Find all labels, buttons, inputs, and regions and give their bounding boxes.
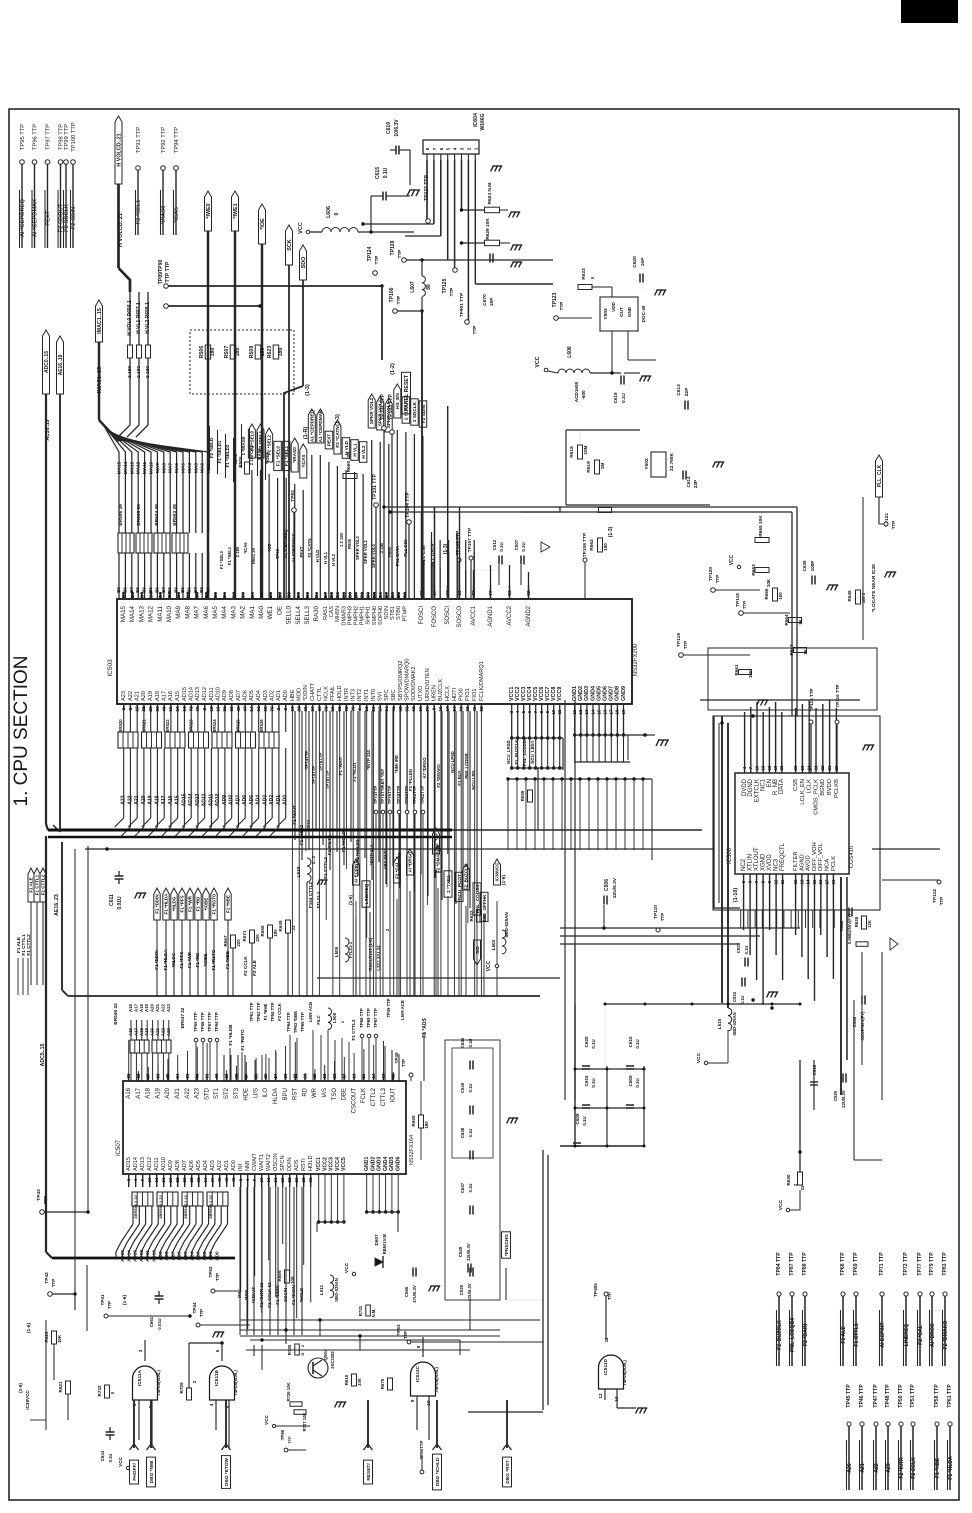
svg-text:16: 16 [290, 706, 295, 712]
svg-text:AD5: AD5 [249, 690, 255, 701]
svg-text:TP83 TTP: TP83 TTP [942, 1252, 948, 1276]
svg-text:33: 33 [229, 706, 234, 712]
svg-text:2SC3382: 2SC3382 [330, 1351, 335, 1369]
svg-text:XTLOUT: XTLOUT [754, 847, 760, 871]
svg-text:SELL0: SELL0 [286, 605, 293, 624]
svg-text:10K: 10K [748, 669, 753, 678]
svg-text:38: 38 [465, 706, 470, 712]
svg-text:B9: B9 [296, 592, 301, 598]
svg-text:C636: C636 [460, 1037, 465, 1048]
svg-text:VCC4: VCC4 [335, 1157, 341, 1171]
svg-text:19: 19 [322, 1073, 327, 1079]
svg-text:F1 *WR: F1 *WR [188, 895, 193, 912]
svg-text:NMI: NMI [245, 1160, 251, 1171]
svg-text:0.1U: 0.1U [582, 1116, 587, 1125]
svg-text:17: 17 [342, 1073, 347, 1079]
svg-text:DATA: DATA [779, 779, 785, 794]
svg-text:HDE: HDE [244, 1088, 250, 1101]
svg-text:TTP: TTP [742, 601, 747, 609]
svg-text:A23: A23 [195, 1087, 201, 1098]
svg-text:PMPH3: PMPH3 [347, 606, 353, 625]
svg-text:R508: R508 [249, 346, 255, 359]
svg-text:19: 19 [621, 709, 626, 714]
svg-text:H VOL0 R656.1: H VOL0 R656.1 [127, 300, 133, 336]
svg-text:IMAC1..15: IMAC1..15 [97, 308, 103, 334]
svg-text:51: 51 [324, 706, 329, 712]
svg-text:TTP TTP: TTP TTP [165, 261, 171, 282]
svg-text:14: 14 [590, 709, 595, 714]
svg-text:(1-3): (1-3) [608, 526, 614, 537]
svg-text:39: 39 [126, 1073, 131, 1079]
svg-text:AE16..19: AE16..19 [58, 354, 64, 375]
svg-text:F2 *GAIN: F2 *GAIN [803, 1324, 809, 1346]
svg-text:33: 33 [291, 925, 296, 930]
svg-text:OE: OE [276, 606, 283, 615]
svg-text:FOSCI: FOSCI [419, 606, 425, 625]
svg-text:MA10: MA10 [166, 605, 173, 622]
svg-text:BR503 39: BR503 39 [172, 504, 178, 526]
svg-text:MA11: MA11 [157, 605, 164, 621]
svg-text:22: 22 [820, 765, 825, 770]
svg-text:AVCC1: AVCC1 [471, 605, 477, 625]
svg-text:F1 *HLDA: F1 *HLDA [163, 949, 168, 971]
svg-text:0.1U: 0.1U [468, 1184, 473, 1193]
svg-text:TTP: TTP [107, 1301, 112, 1309]
svg-text:CMOS_PCLK: CMOS_PCLK [813, 779, 819, 815]
svg-text:15: 15 [596, 709, 601, 714]
svg-text:R663: R663 [751, 564, 757, 576]
svg-text:IC38VCC: IC38VCC [25, 1390, 30, 1410]
svg-text:F1 *WAIT: F1 *WAIT [338, 756, 343, 775]
svg-text:C661: C661 [149, 1316, 154, 1327]
svg-text:SPKR VOL2: SPKR VOL2 [369, 397, 374, 424]
svg-text:URXD/UTEN: URXD/UTEN [425, 668, 431, 701]
svg-text:-600: -600 [581, 390, 586, 400]
svg-text:TP110: TP110 [653, 905, 659, 919]
svg-text:F1 *HLDA: F1 *HLDA [164, 893, 169, 915]
svg-text:B7: B7 [161, 587, 166, 593]
svg-text:F1 *SEL0: F1 *SEL0 [275, 445, 280, 466]
svg-text:TP78TTP: TP78TTP [396, 786, 401, 805]
svg-text:9: 9 [283, 707, 288, 710]
svg-text:PCLKB: PCLKB [834, 779, 840, 798]
svg-text:MA6: MA6 [174, 463, 179, 473]
svg-text:A18: A18 [146, 1087, 152, 1098]
svg-text:B8: B8 [149, 592, 154, 598]
svg-text:DGND: DGND [748, 778, 754, 796]
svg-text:F1 *BHE: F1 *BHE [263, 1004, 268, 1021]
svg-text:CTTL2: CTTL2 [371, 1087, 377, 1106]
svg-text:180: 180 [235, 348, 241, 357]
svg-text:B8: B8 [360, 592, 365, 598]
svg-text:A21: A21 [135, 691, 141, 701]
svg-text:GND5: GND5 [389, 1156, 395, 1171]
svg-text:SCK: SCK [287, 239, 293, 250]
svg-text:25: 25 [182, 1177, 187, 1183]
svg-text:A22: A22 [874, 1463, 880, 1473]
svg-text:5: 5 [202, 707, 207, 710]
svg-text:NS32FX200: NS32FX200 [633, 643, 639, 676]
svg-text:DOC-49: DOC-49 [641, 305, 646, 322]
svg-text:F1 *SEL1: F1 *SEL1 [227, 546, 232, 565]
svg-text:37: 37 [210, 1177, 215, 1183]
svg-text:TTP: TTP [939, 897, 944, 905]
svg-text:18: 18 [831, 879, 836, 884]
svg-text:A16: A16 [126, 1087, 132, 1098]
svg-text:R623: R623 [267, 346, 273, 359]
svg-text:22: 22 [293, 1073, 298, 1079]
svg-text:TP61 TTP: TP61 TTP [249, 1002, 254, 1021]
svg-text:10: 10 [774, 879, 779, 884]
svg-text:1: 1 [473, 147, 478, 150]
svg-text:B6: B6 [222, 592, 227, 598]
svg-text:14: 14 [371, 1073, 376, 1079]
svg-text:0.1U: 0.1U [591, 1039, 596, 1048]
svg-text:F1 *RETO: F1 *RETO [240, 1029, 245, 1051]
svg-text:B6: B6 [347, 592, 352, 598]
svg-text:23: 23 [283, 1073, 288, 1079]
svg-text:8: 8 [416, 1345, 421, 1348]
svg-text:MA15: MA15 [117, 461, 122, 474]
svg-text:B7: B7 [193, 587, 198, 593]
svg-text:INT0: INT0 [371, 689, 377, 701]
svg-text:B5: B5 [305, 592, 310, 598]
svg-text:IC511A: IC511A [137, 1369, 143, 1386]
svg-text:R629 10K: R629 10K [485, 218, 491, 240]
svg-text:BR525: BR525 [236, 719, 241, 733]
svg-text:PNL DATA: PNL DATA [395, 546, 400, 566]
svg-text:A22: A22 [185, 1087, 191, 1098]
svg-text:TP47 TTP: TP47 TTP [873, 1384, 879, 1408]
svg-text:L509: L509 [334, 946, 339, 957]
svg-text:R732: R732 [97, 1385, 102, 1396]
svg-text:TP94 TTP: TP94 TTP [174, 127, 180, 153]
svg-text:1 0: 1 0 [259, 548, 264, 554]
svg-text:C927: C927 [736, 942, 741, 953]
svg-text:12: 12 [793, 879, 798, 884]
svg-text:4: 4 [453, 147, 458, 150]
svg-text:TP127 TTP: TP127 TTP [424, 175, 430, 201]
svg-text:TP97 TTP: TP97 TTP [46, 124, 52, 150]
svg-text:22P: 22P [693, 480, 698, 488]
svg-text:16: 16 [161, 1177, 166, 1183]
svg-text:MA14: MA14 [129, 605, 136, 622]
svg-text:EXTCLK: EXTCLK [754, 779, 760, 802]
svg-text:180: 180 [424, 1121, 429, 1129]
svg-text:B8: B8 [287, 592, 292, 598]
svg-text:TP44: TP44 [192, 1302, 197, 1313]
svg-text:C545: C545 [460, 1082, 465, 1093]
svg-text:TP76TTP: TP76TTP [318, 753, 323, 772]
svg-text:RSTI: RSTI [301, 1158, 307, 1171]
svg-text:F1 *HLDB: F1 *HLDB [228, 1024, 233, 1046]
svg-text:H VL1: H VL1 [352, 443, 357, 457]
svg-text:55: 55 [405, 706, 410, 712]
svg-text:AD12: AD12 [147, 1157, 153, 1171]
svg-text:HS_EN: HS_EN [395, 393, 400, 409]
svg-text:F2 ALE: F2 ALE [252, 960, 257, 976]
svg-text:32.768K: 32.768K [669, 452, 675, 471]
svg-text:AD15: AD15 [126, 1157, 132, 1171]
svg-text:DBG *NMI: DBG *NMI [149, 1460, 155, 1483]
svg-text:TP123: TP123 [552, 292, 558, 307]
svg-text:B8: B8 [195, 592, 200, 598]
svg-text:CSCOUT: CSCOUT [351, 1088, 357, 1114]
svg-text:DBG *ETOW: DBG *ETOW [224, 1457, 230, 1486]
svg-text:F1 CTTL2: F1 CTTL2 [26, 934, 31, 956]
svg-text:STB0: STB0 [396, 606, 402, 620]
svg-text:TTP: TTP [660, 913, 665, 921]
svg-text:28: 28 [189, 1177, 194, 1183]
svg-text:MA1: MA1 [206, 463, 211, 473]
svg-text:12: 12 [391, 1073, 396, 1079]
svg-text:45: 45 [472, 706, 477, 712]
svg-text:38: 38 [136, 1073, 141, 1079]
svg-text:INT2: INT2 [357, 689, 363, 701]
svg-text:52: 52 [479, 706, 484, 712]
svg-text:C934: C934 [732, 991, 737, 1002]
svg-text:IC511B: IC511B [214, 1369, 220, 1386]
svg-text:(1-10): (1-10) [733, 888, 739, 903]
svg-text:TP74TTP: TP74TTP [373, 786, 378, 805]
svg-text:B6: B6 [314, 592, 319, 598]
svg-text:F1 ALE: F1 ALE [841, 1326, 847, 1344]
svg-text:C616: C616 [584, 1075, 589, 1086]
svg-text:TP46 TTP: TP46 TTP [859, 1384, 865, 1408]
svg-text:26: 26 [793, 765, 798, 770]
svg-text:TP50 TTP: TP50 TTP [898, 1384, 904, 1408]
svg-text:F1 *HLDA: F1 *HLDA [948, 1456, 954, 1480]
svg-text:27: 27 [378, 706, 383, 712]
svg-text:R669: R669 [277, 1270, 282, 1281]
svg-text:B5: B5 [148, 587, 153, 593]
svg-text:C529: C529 [458, 1246, 463, 1257]
svg-text:20: 20 [834, 765, 839, 770]
svg-text:88: 88 [426, 284, 432, 290]
svg-text:CHATT: CHATT [310, 682, 316, 701]
svg-text:TTP: TTP [287, 1436, 292, 1444]
svg-text:TP49: TP49 [394, 1052, 399, 1063]
svg-text:TP80TTP: TP80TTP [404, 786, 409, 805]
svg-text:MA7: MA7 [194, 605, 201, 618]
svg-text:AD0: AD0 [283, 690, 289, 701]
svg-text:34: 34 [203, 1177, 208, 1183]
svg-text:TP51 TTP: TP51 TTP [910, 1384, 916, 1408]
svg-text:2 *TXD1: 2 *TXD1 [446, 875, 451, 893]
svg-text:HOLD: HOLD [337, 685, 343, 701]
svg-text:B7: B7 [139, 592, 144, 598]
svg-text:FOSCO: FOSCO [432, 606, 438, 628]
svg-text:BR523: BR523 [189, 719, 194, 733]
svg-text:C637: C637 [460, 1182, 465, 1193]
svg-text:47U/6.3V: 47U/6.3V [412, 1285, 417, 1303]
svg-text:Q504: Q504 [323, 1349, 328, 1360]
svg-text:23: 23 [297, 706, 302, 712]
svg-text:TP92 TTP: TP92 TTP [161, 127, 167, 153]
svg-text:MA5: MA5 [212, 605, 219, 618]
svg-text:PEXT: PEXT [327, 434, 332, 446]
svg-text:34: 34 [175, 1073, 180, 1079]
svg-text:36: 36 [155, 706, 160, 712]
svg-text:R670: R670 [380, 1378, 385, 1389]
svg-text:TP119: TP119 [676, 633, 682, 647]
svg-text:R505: R505 [238, 456, 243, 467]
svg-text:R619: R619 [586, 461, 592, 473]
svg-text:TTP: TTP [559, 302, 564, 311]
svg-text:A20: A20 [150, 1027, 155, 1035]
svg-text:INTR: INTR [344, 688, 350, 701]
svg-text:R649: R649 [278, 920, 283, 931]
svg-text:SDO: SDO [301, 257, 307, 269]
svg-text:TP76TTP: TP76TTP [387, 786, 392, 805]
svg-text:R_NB: R_NB [773, 779, 779, 795]
svg-text:TTP: TTP [199, 1309, 204, 1317]
svg-text:20: 20 [371, 706, 376, 712]
svg-text:AD4: AD4 [256, 690, 262, 701]
svg-text:B6: B6 [130, 592, 135, 598]
svg-text:37: 37 [146, 1073, 151, 1079]
svg-text:ST3: ST3 [234, 1087, 240, 1099]
svg-text:VCC5: VCC5 [341, 1157, 347, 1171]
svg-text:A18: A18 [139, 1003, 144, 1011]
svg-text:TP42: TP42 [44, 1272, 50, 1284]
svg-text:DIFF_VOH: DIFF_VOH [812, 842, 818, 871]
svg-text:72: 72 [344, 706, 349, 712]
svg-text:31: 31 [204, 1073, 209, 1079]
svg-text:MA4: MA4 [187, 463, 192, 473]
svg-text:68: 68 [263, 706, 268, 712]
svg-text:SODI/DMAK2: SODI/DMAK2 [411, 666, 417, 701]
svg-text:AD14: AD14 [133, 1157, 139, 1171]
svg-text:AD0: AD0 [231, 1160, 237, 1171]
svg-text:MA15: MA15 [120, 605, 127, 622]
svg-text:BR522: BR522 [165, 719, 170, 733]
svg-text:H VL2: H VL2 [331, 553, 336, 566]
svg-text:F1 *RD: F1 *RD [195, 952, 200, 968]
svg-text:IC511C: IC511C [415, 1365, 421, 1382]
svg-text:TTP: TTP [397, 250, 402, 259]
svg-text:TP48 TTP: TP48 TTP [885, 1384, 891, 1408]
svg-text:12: 12 [209, 706, 214, 712]
svg-text:VDD: VDD [611, 301, 616, 311]
svg-text:180: 180 [603, 543, 608, 551]
svg-text:F1 *ADS: F1 *ADS [422, 1017, 428, 1037]
svg-text:(1-6): (1-6) [26, 1323, 32, 1334]
svg-text:TP99 TTP: TP99 TTP [64, 124, 70, 150]
svg-text:A20: A20 [847, 1463, 853, 1473]
svg-text:DBG *RST: DBG *RST [505, 1460, 511, 1484]
svg-text:33: 33 [800, 1185, 805, 1190]
svg-text:PTMP: PTMP [402, 606, 408, 622]
svg-text:TP120: TP120 [708, 567, 714, 581]
svg-text:29: 29 [148, 706, 153, 712]
svg-text:A21: A21 [175, 1087, 181, 1098]
svg-text:F1 *DDIN: F1 *DDIN [155, 894, 160, 913]
svg-text:PEXT: PEXT [46, 210, 52, 226]
svg-text:0.1U: 0.1U [635, 1039, 640, 1048]
svg-text:W166G: W166G [480, 113, 486, 130]
svg-text:AGND: AGND [799, 854, 805, 871]
svg-text:B7: B7 [231, 592, 236, 598]
svg-text:TP112: TP112 [932, 889, 938, 903]
svg-text:ADC0..15: ADC0..15 [44, 351, 50, 373]
svg-text:PNL_LCDDB4: PNL_LCDDB4 [522, 737, 527, 766]
svg-text:OSCIN: OSCIN [283, 1288, 288, 1302]
svg-text:LCLK_EN: LCLK_EN [800, 779, 806, 805]
svg-text:10: 10 [259, 1177, 264, 1183]
svg-text:F1 CTTL1: F1 CTTL1 [35, 874, 40, 895]
svg-text:VCC2: VCC2 [322, 1157, 328, 1171]
svg-text:10/6.3V: 10/6.3V [394, 119, 400, 137]
svg-text:F2 *INTR: F2 *INTR [899, 1457, 905, 1479]
svg-text:AI ECPINT: AI ECPINT [880, 1322, 886, 1348]
svg-text:A17: A17 [133, 1003, 138, 1011]
svg-text:TTP: TTP [472, 326, 477, 335]
svg-text:69: 69 [418, 706, 423, 712]
svg-text:48: 48 [398, 706, 403, 712]
svg-text:TTP: TTP [396, 296, 401, 305]
svg-text:12K: 12K [867, 920, 872, 928]
svg-text:25: 25 [294, 1177, 299, 1183]
svg-text:A7 *DRGO: A7 *DRGO [422, 757, 427, 779]
svg-text:F1 *HBE: F1 *HBE [226, 895, 231, 913]
svg-text:F2 SDIN: F2 SDIN [71, 207, 77, 229]
svg-text:B5: B5 [259, 592, 264, 598]
svg-text:1M: 1M [600, 463, 605, 470]
svg-text:2...3: 2...3 [311, 855, 316, 864]
svg-text:100P: 100P [810, 561, 815, 572]
svg-text:TP69 TTP: TP69 TTP [366, 1008, 371, 1028]
svg-text:AD6: AD6 [189, 1160, 195, 1171]
svg-text:AD7: AD7 [236, 690, 242, 701]
svg-text:29: 29 [224, 1073, 229, 1079]
svg-text:TP93: TP93 [275, 548, 280, 559]
svg-text:*ICA5: *ICA5 [243, 542, 248, 554]
svg-text:WAIT2: WAIT2 [266, 1154, 272, 1171]
svg-text:*IOBE: *IOBE [204, 898, 209, 911]
svg-text:GND5: GND5 [596, 686, 602, 701]
svg-text:A17: A17 [136, 1087, 142, 1098]
svg-text:25: 25 [263, 1073, 268, 1079]
svg-text:F1 *DDIN: F1 *DDIN [154, 950, 159, 969]
svg-text:A16: A16 [168, 691, 174, 701]
svg-text:F2 CCLK 52: F2 CCLK 52 [267, 1282, 272, 1308]
svg-text:CWAIT: CWAIT [252, 1153, 258, 1171]
svg-text:AI ECPINT: AI ECPINT [354, 861, 359, 884]
svg-text:VCC: VCC [118, 1456, 123, 1466]
svg-text:GND3: GND3 [584, 686, 590, 701]
svg-text:0.1U: 0.1U [468, 1129, 473, 1138]
svg-text:B9: B9 [206, 587, 211, 593]
svg-text:R505: R505 [347, 538, 352, 549]
svg-text:H VL2 R658.1: H VL2 R658.1 [145, 302, 151, 334]
svg-text:RA51: RA51 [323, 606, 329, 620]
svg-text:RD: RD [302, 1087, 308, 1096]
svg-text:0.1U: 0.1U [740, 996, 745, 1005]
svg-text:BR526: BR526 [259, 719, 264, 733]
svg-text:TP67 TTP: TP67 TTP [373, 1008, 378, 1028]
svg-text:H VL2: H VL2 [361, 445, 366, 459]
svg-text:AD7: AD7 [182, 1160, 188, 1171]
svg-text:TP81TTP: TP81TTP [412, 786, 417, 805]
svg-text:31: 31 [308, 1177, 313, 1183]
svg-text:0.1U: 0.1U [468, 1039, 473, 1048]
svg-text:28: 28 [234, 1073, 239, 1079]
svg-text:MA8: MA8 [161, 463, 166, 473]
svg-text:L515: L515 [717, 1018, 722, 1029]
svg-text:0: 0 [334, 212, 340, 215]
svg-text:R728: R728 [179, 1382, 184, 1393]
